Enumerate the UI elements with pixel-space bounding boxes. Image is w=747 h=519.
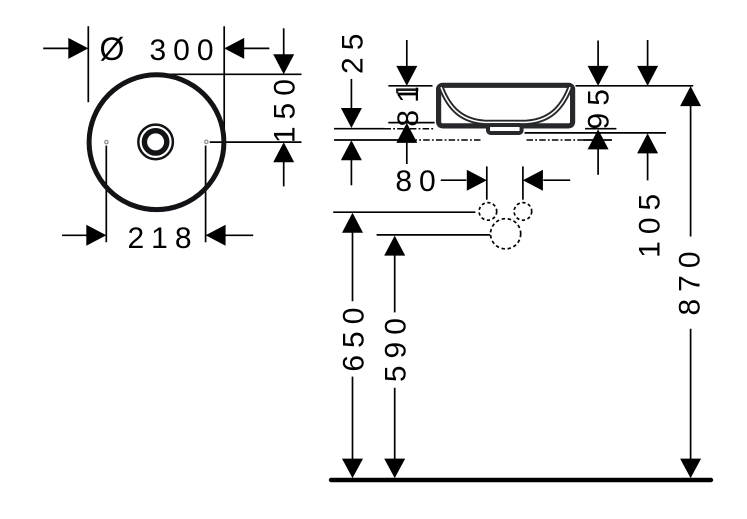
wire 95 dim upper tail [597, 41, 599, 67]
wire 25 dim upper tail [350, 79, 352, 108]
svg-text:81: 81 [392, 79, 425, 126]
floor line [331, 478, 711, 482]
svg-text:25: 25 [336, 27, 369, 74]
svg-text:590: 590 [380, 311, 413, 382]
arrow 105 bottom (up) [637, 133, 658, 153]
arrow 25 bottom (up) [341, 140, 362, 160]
arrow 150 top [273, 54, 294, 74]
svg-text:870: 870 [673, 244, 706, 315]
arrow 80 left [467, 170, 487, 191]
wire Ø300 dim line right tail [244, 47, 269, 49]
wire large hole center line [377, 234, 491, 236]
arrow 650 top (up) [342, 213, 363, 233]
wire Ø300 extension right [223, 26, 225, 142]
wire 25 dim lower tail [350, 160, 352, 186]
arrow Ø300 right [224, 38, 244, 59]
arrow 80 right [523, 170, 543, 191]
wire 150 dim lower tail [283, 162, 285, 186]
arrow Ø300 left [68, 38, 88, 59]
svg-text:300: 300 [150, 34, 221, 67]
wire line C (81 lower reference) [388, 122, 434, 124]
basin body outline [439, 85, 573, 126]
arrow 150 bottom [273, 142, 294, 162]
svg-text:Ø: Ø [100, 31, 125, 67]
wire line B dashdot left [411, 139, 483, 141]
wire line L2 (105 lower reference) [525, 132, 667, 134]
wire 590 dim line upper segment [394, 255, 396, 312]
arrow 95 bottom (up) [588, 129, 609, 149]
wire 590 dim line lower segment [394, 388, 396, 459]
arrow 590 top (up) [384, 236, 405, 256]
wire rim tangent line left segment [388, 85, 432, 87]
wire 81 dim upper tail [406, 40, 408, 66]
svg-text:95: 95 [582, 82, 615, 129]
arrow 105 top (down) [637, 66, 658, 86]
arrow 81 bottom (up) [396, 123, 417, 143]
arrow 95 top (down) [588, 66, 609, 86]
wire 80 dim line left tail [441, 179, 467, 181]
basin bowl curve [441, 87, 570, 122]
svg-text:80: 80 [395, 165, 442, 198]
arrow 25 top (down) [341, 108, 362, 128]
arrow 81 top (down) [396, 66, 417, 86]
faucet hole small right (dashed) [514, 203, 532, 221]
wire 218 extension right [205, 146, 207, 243]
wire 80 extension left [486, 166, 488, 199]
wire line B dashdot right [527, 139, 584, 141]
arrow 650 bottom (down) [342, 459, 363, 479]
wire Ø300 dim line left tail [43, 47, 68, 49]
node left hole mark [105, 140, 108, 143]
drain outer circle [138, 125, 173, 160]
wire center leader line [210, 141, 302, 143]
wire line A solid right (95 lower reference) [585, 128, 616, 130]
svg-text:150: 150 [269, 72, 302, 143]
wire 80 extension right [522, 166, 524, 199]
svg-text:105: 105 [633, 187, 666, 258]
arrow 218 left [86, 225, 106, 246]
arrow 870 bottom (down) [680, 459, 701, 479]
wire 218 dim line right tail [225, 234, 253, 236]
wire 218 extension left [105, 146, 107, 243]
wire small holes center line [333, 211, 475, 213]
arrow 870 top (up) [680, 86, 701, 106]
wire 650 dim line upper segment [352, 233, 354, 302]
wire 150 dim upper tail [283, 28, 285, 54]
wire 105 dim upper tail [647, 40, 649, 66]
svg-text:218: 218 [127, 222, 198, 255]
node right hole mark [205, 140, 208, 143]
wire 95 dim lower tail [597, 149, 599, 175]
basin outer circle [89, 75, 224, 210]
wire line A solid left (25 upper reference) [334, 128, 385, 130]
wire 81 dim lower tail [406, 143, 408, 165]
wire 218 dim line left tail [62, 234, 87, 236]
faucet hole small left (dashed) [479, 203, 497, 221]
arrow 218 right [206, 225, 226, 246]
wire 650 dim line lower segment [352, 377, 354, 459]
wire 870 dim line upper segment [690, 106, 692, 237]
label Ø300 [100, 31, 221, 67]
basin bowl curve highlight [441, 87, 570, 122]
svg-text:650: 650 [337, 301, 370, 372]
wire line A dashdot [385, 128, 435, 130]
arrow 590 bottom (down) [384, 459, 405, 479]
wire 80 dim line right tail [543, 179, 570, 181]
wire rim tangent line right segment [576, 85, 694, 87]
wire top tangent line [156, 73, 302, 75]
drain inner ring [144, 131, 166, 153]
wire Ø300 extension left [87, 26, 89, 102]
wire line B solid right [584, 139, 612, 141]
drain stub [488, 125, 522, 133]
wire 105 dim lower tail [647, 153, 649, 180]
wire 870 dim line lower segment [690, 329, 692, 459]
faucet hole large (dashed) [491, 219, 521, 249]
rim back edge bracket [396, 90, 418, 94]
wire line B solid left (25 lower reference) [334, 139, 411, 141]
